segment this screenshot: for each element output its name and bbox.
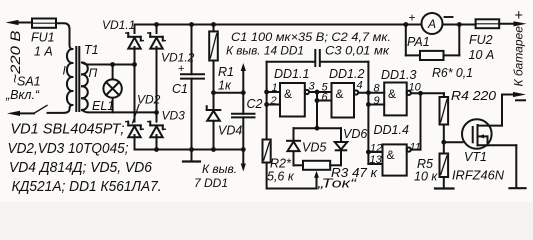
capacitor C3 — [267, 44, 391, 67]
wire: bridge left column — [132, 25, 137, 150]
svg-text:IRFZ46N: IRFZ46N — [452, 169, 505, 183]
svg-text:13: 13 — [370, 154, 383, 166]
svg-text:EL1: EL1 — [92, 99, 114, 113]
label: C1 C2 values — [231, 30, 391, 44]
svg-text:К выв. 14 DD1: К выв. 14 DD1 — [226, 44, 304, 58]
svg-text:FU2: FU2 — [469, 33, 493, 47]
svg-text:VD4 Д814Д; VD5, VD6: VD4 Д814Д; VD5, VD6 — [9, 160, 153, 176]
svg-text:„Ток“: „Ток“ — [317, 177, 358, 191]
svg-text:1к: 1к — [218, 79, 232, 93]
svg-text:&: & — [387, 148, 395, 162]
svg-text:VD5: VD5 — [302, 141, 326, 155]
svg-text:12: 12 — [370, 143, 382, 155]
svg-text:R2*: R2* — [270, 157, 292, 171]
label: parts list line 3 — [9, 160, 153, 176]
svg-text:FU1: FU1 — [31, 31, 55, 45]
svg-text:8: 8 — [374, 83, 381, 95]
svg-text:R6* 0,1: R6* 0,1 — [432, 66, 473, 80]
arrow: battery plus terminal — [499, 8, 526, 26]
svg-text:10 к: 10 к — [414, 170, 438, 184]
gate DD1.1 — [274, 67, 332, 117]
label: parts list line 1 — [10, 122, 124, 138]
wire: source to ground — [515, 145, 517, 188]
svg-text:4: 4 — [357, 80, 363, 92]
arrow: to pin 7 DD1 — [194, 150, 246, 191]
wire: paralleled outputs — [420, 93, 422, 149]
svg-text:С1 100 мк×35 В; С2 4,7 мк.: С1 100 мк×35 В; С2 4,7 мк. — [231, 30, 391, 44]
fuse FU1 — [31, 19, 56, 59]
svg-text:10: 10 — [409, 82, 422, 94]
wire: secondary bottom to bridge AC node — [82, 110, 159, 115]
svg-text:„Вкл.“: „Вкл.“ — [5, 88, 40, 102]
wire: gate node — [441, 140, 462, 145]
label: ~220 V mains — [8, 31, 23, 84]
svg-text:К выв.: К выв. — [202, 162, 237, 176]
svg-text:3: 3 — [309, 81, 316, 93]
diode VD6 — [335, 127, 368, 150]
wire: positive top rail — [135, 22, 422, 27]
label: K batteree — [512, 26, 526, 87]
svg-text:6: 6 — [322, 92, 329, 104]
svg-text:Т1: Т1 — [84, 43, 99, 57]
svg-text:КД521А; DD1 К561ЛА7.: КД521А; DD1 К561ЛА7. — [12, 179, 162, 195]
label: parts list line 4 — [12, 179, 162, 195]
svg-text:+: + — [178, 63, 184, 75]
svg-text:7 DD1: 7 DD1 — [194, 176, 228, 190]
ground: at R5 — [435, 187, 454, 189]
svg-text:2: 2 — [270, 95, 277, 107]
capacitor C1 — [172, 25, 204, 150]
wire: drain to battery minus — [502, 95, 513, 126]
svg-text:С2: С2 — [247, 97, 263, 111]
wire: DD1.1 input tie node A — [264, 62, 280, 140]
svg-text:+: + — [515, 8, 523, 24]
transformer T1 core — [76, 43, 98, 111]
resistor R5 — [414, 142, 448, 188]
transformer T1 secondary winding II — [82, 63, 98, 111]
lamp EL1 — [92, 65, 122, 114]
wire: bridge right column — [156, 25, 158, 150]
svg-text:VD1 SBL4045РТ;: VD1 SBL4045РТ; — [10, 122, 124, 138]
svg-text:РА1: РА1 — [407, 35, 430, 49]
svg-text:&: & — [284, 87, 292, 101]
wire: 9V supply node — [211, 90, 246, 95]
svg-text:1: 1 — [272, 82, 278, 94]
fuse FU2 — [469, 19, 500, 62]
capacitor C2 — [232, 93, 263, 150]
wire: FU1 to T1 primary — [56, 23, 72, 49]
label: parts list line 2 — [8, 141, 129, 157]
diode VD5 — [287, 141, 326, 155]
svg-text:DD1.3: DD1.3 — [381, 68, 416, 82]
ammeter PA1 — [407, 11, 453, 50]
svg-text:1 А: 1 А — [34, 45, 53, 59]
transistor VT1 MOSFET — [452, 119, 516, 182]
diode VD2 — [126, 93, 161, 138]
gate DD1.3 — [381, 68, 444, 115]
svg-text:С1: С1 — [172, 82, 188, 96]
svg-text:VТ1: VТ1 — [464, 150, 487, 164]
zener VD4 — [207, 93, 243, 150]
svg-text:VD2,VD3 10ТQ045;: VD2,VD3 10ТQ045; — [8, 141, 129, 157]
switch SA1 — [5, 75, 47, 117]
svg-text:VD3: VD3 — [162, 109, 186, 123]
ground: common at C1 — [183, 150, 200, 162]
svg-text:R4 220: R4 220 — [451, 89, 496, 103]
gate DD1.4 — [374, 123, 421, 176]
resistor R2 — [263, 140, 295, 184]
svg-text:11: 11 — [410, 142, 421, 154]
wire: switch to primary bottom — [48, 105, 73, 113]
svg-text:А: А — [427, 17, 436, 31]
svg-text:9: 9 — [374, 95, 380, 107]
resistor R1 — [209, 25, 234, 93]
svg-text:&: & — [388, 87, 396, 101]
wire: node B tie — [315, 82, 332, 129]
svg-text:R1: R1 — [218, 65, 234, 79]
wire: R2 bottom to R3 wiper — [267, 163, 319, 189]
wire: negative bottom rail — [135, 147, 246, 152]
svg-text:VD1.1: VD1.1 — [102, 18, 135, 32]
svg-text:С3 0,01 мк: С3 0,01 мк — [325, 44, 390, 58]
wire: ammeter to FU2 — [443, 24, 476, 26]
svg-text:5,6 к: 5,6 к — [267, 170, 295, 184]
svg-text:+: + — [409, 11, 416, 25]
diode VD3 — [148, 109, 185, 138]
wire: secondary top to bridge AC node — [82, 62, 135, 67]
gate DD1.2 — [329, 67, 384, 118]
svg-text:&: & — [336, 87, 344, 101]
wire: node C tie for DD1.3 DD1.4 — [366, 62, 384, 167]
potentiometer R3 "Tok" — [303, 161, 378, 191]
diode VD1.2 — [148, 33, 195, 65]
arrow: to pin 14 DD1 — [226, 44, 304, 93]
diode VD1.1 — [102, 18, 143, 49]
resistor R6 shunt — [406, 22, 473, 80]
arrow: battery minus terminal — [513, 92, 526, 100]
svg-text:SA1: SA1 — [17, 75, 41, 89]
svg-text:DD1.1: DD1.1 — [274, 67, 309, 81]
wire: diode box frame node B down — [294, 126, 342, 166]
wire: mains input line with arrow — [6, 20, 33, 25]
svg-text:К батарее: К батарее — [512, 26, 526, 87]
svg-text:VD4: VD4 — [218, 124, 242, 138]
transformer T1 primary winding I — [63, 49, 73, 105]
svg-text:10 А: 10 А — [469, 48, 495, 62]
ground: at VT1 source — [510, 187, 526, 189]
svg-text:VD6: VD6 — [343, 127, 367, 141]
svg-text:DD1.4: DD1.4 — [374, 123, 409, 137]
svg-text:Π: Π — [89, 66, 98, 80]
resistor R4 — [440, 89, 497, 142]
